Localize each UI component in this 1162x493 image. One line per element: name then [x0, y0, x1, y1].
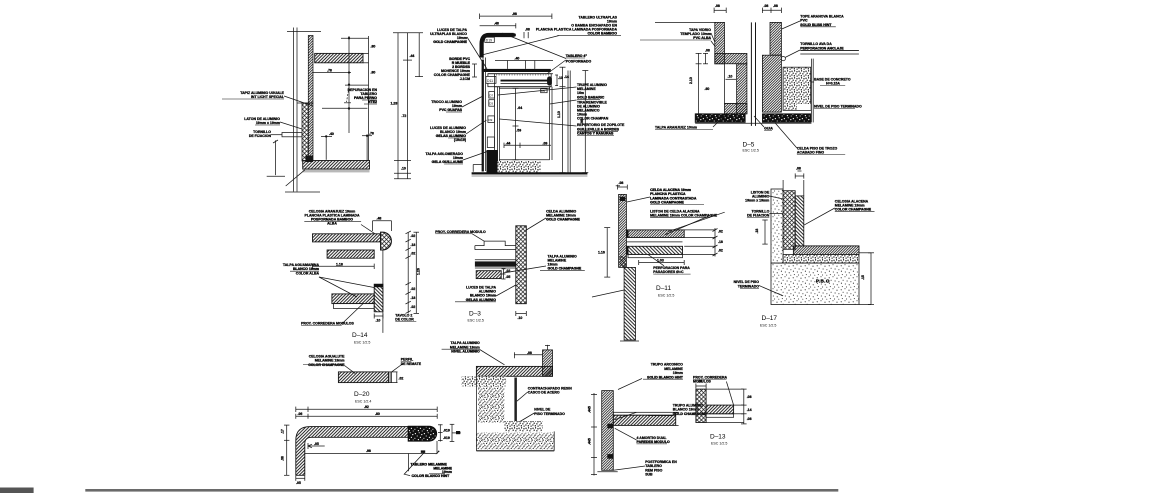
left text bracket dim [474, 64, 476, 77]
leader right R1b [550, 100, 577, 104]
svg-text:.59: .59 [516, 129, 521, 133]
svg-text:INT LICHT SPECIAL: INT LICHT SPECIAL [251, 95, 285, 99]
shared dim vertical [593, 393, 595, 476]
left dim vertical [286, 425, 288, 475]
small bracket right of bands [503, 269, 505, 279]
detail B left notes [425, 28, 470, 164]
bottom dim .10 [516, 313, 527, 315]
bar end cap [389, 372, 392, 383]
svg-text:.08: .08 [747, 395, 752, 399]
leader to anchor circle [785, 50, 800, 58]
right dim line tall 2 [407, 33, 409, 179]
detail B right notes [577, 83, 625, 136]
svg-text:.18: .18 [718, 240, 723, 244]
svg-text:SOLID BLISS HINT: SOLID BLISS HINT [800, 23, 832, 27]
left cap (hatched) [715, 53, 747, 63]
screw dim vertical [275, 140, 277, 175]
panel tag box D7 [489, 92, 495, 98]
shelf band edge lines [475, 259, 516, 261]
board rounded end [547, 76, 552, 85]
leader postformica [613, 466, 645, 470]
svg-text:.10: .10 [518, 316, 523, 320]
svg-text:D–13: D–13 [710, 434, 726, 441]
concrete base block (stippled) [783, 67, 811, 110]
svg-text:D3: D3 [489, 102, 493, 106]
leg dark bar [514, 378, 517, 422]
svg-text:19mm x 19mm: 19mm x 19mm [256, 121, 280, 125]
svg-text:ESC 1/2.5: ESC 1/2.5 [711, 442, 727, 446]
wall extension verticals [782, 180, 784, 191]
svg-text:.48: .48 [377, 217, 382, 221]
svg-text:.60: .60 [705, 87, 710, 91]
counter board (hatched) [476, 366, 552, 376]
left small dim [764, 220, 766, 244]
leader diagonal to posformado [503, 33, 567, 58]
left panel heavy edge [482, 60, 484, 172]
D-3 label [468, 311, 484, 323]
curved profile dim texts [280, 405, 450, 485]
under band [706, 414, 734, 418]
D-14 top note [304, 210, 361, 226]
D-13 dim texts [698, 380, 752, 422]
wall lower (hatched) [624, 267, 635, 340]
wall board lower outer layer [308, 103, 313, 161]
white notch in concrete [797, 104, 811, 110]
svg-text:1.28: 1.28 [391, 102, 398, 106]
D-13 note [693, 375, 728, 383]
svg-text:1.26: 1.26 [417, 268, 421, 275]
detail A dimension texts [327, 45, 414, 171]
floor heavy line [472, 172, 588, 174]
svg-text:.78: .78 [369, 132, 374, 136]
cabinet inner wall pair [497, 87, 499, 162]
lower slab (hatched) [332, 294, 374, 304]
svg-text:.445: .445 [588, 438, 592, 445]
screw dim bottom tick [267, 175, 285, 177]
slab extension lines [676, 411, 679, 413]
top-left extension line [655, 21, 715, 23]
leader from tope text [782, 21, 800, 29]
svg-text:COLOR CHAMPAGNE: COLOR CHAMPAGNE [835, 208, 872, 212]
svg-text:.09: .09 [543, 141, 548, 145]
guia leader [754, 116, 764, 127]
svg-text:COLOR BAMBOO: COLOR BAMBOO [587, 32, 617, 36]
dim line 1.18 [313, 265, 375, 267]
dim vertical line 2 [368, 36, 370, 161]
floor shadow line [472, 175, 588, 177]
D-14 label [352, 332, 370, 345]
svg-text:COLOR CHAMPAN: COLOR CHAMPAN [577, 116, 609, 120]
mortar pad (stippled) [505, 421, 543, 431]
D5 tag box [541, 89, 547, 93]
right dim line short [418, 33, 420, 77]
floor band right (dark stipple) [762, 114, 810, 123]
top note leader [480, 350, 505, 365]
D-5 notes [640, 15, 862, 155]
svg-text:.10: .10 [728, 75, 733, 79]
wall upper (hatched) [619, 194, 627, 267]
svg-text:PAREDES MODULO: PAREDES MODULO [637, 440, 670, 444]
svg-text:.17: .17 [280, 429, 284, 434]
shelf edge extension lines [363, 52, 369, 54]
svg-text:.18: .18 [411, 243, 416, 247]
wall board lower inner layer (cross hatched) [302, 103, 308, 161]
right column upper (hatched) [770, 22, 781, 55]
svg-text:TERMINADO: TERMINADO [738, 284, 759, 288]
leader diagonal from top-right text to nose [483, 36, 560, 55]
svg-text:REPERTORIO DE ZOPILOTE: REPERTORIO DE ZOPILOTE [577, 123, 625, 127]
svg-text:.02: .02 [399, 377, 404, 381]
svg-text:GOLD CHAMPAGNE: GOLD CHAMPAGNE [548, 267, 582, 271]
right boundary [553, 431, 555, 450]
svg-text:.02: .02 [718, 249, 723, 253]
svg-text:.14: .14 [564, 75, 569, 79]
svg-text:.40: .40 [515, 56, 520, 60]
right panel line pair [567, 71, 569, 173]
toe kick zoclo dark [487, 150, 498, 173]
svg-text:.08: .08 [527, 351, 532, 355]
fixation mark on surface [421, 450, 425, 453]
svg-text:.445: .445 [588, 406, 592, 413]
wall stud line 2 [296, 28, 298, 192]
svg-text:NTE2: NTE2 [368, 100, 377, 104]
D-3 right notes [540, 210, 585, 271]
D-20 notes [303, 355, 422, 381]
counter top surface heavy band [482, 69, 551, 72]
floor slab (hatched) [793, 246, 859, 255]
right dim vertical [870, 253, 872, 305]
white box dim [726, 78, 737, 80]
left small bracket [705, 53, 707, 63]
svg-text:NIVEL DE PISO TERMINADO: NIVEL DE PISO TERMINADO [814, 105, 862, 109]
bottom page rule [85, 489, 838, 492]
svg-text:1.10: 1.10 [557, 111, 561, 118]
bottom slab (stippled) [476, 433, 554, 450]
D-17 dim texts [755, 167, 865, 281]
shelf dim line .78 [313, 72, 351, 74]
svg-text:.019: .019 [443, 428, 450, 432]
svg-text:.98: .98 [512, 12, 517, 16]
svg-text:.02: .02 [506, 269, 511, 273]
top dim segment left [714, 9, 726, 11]
svg-text:PISO TERMINADO: PISO TERMINADO [534, 412, 565, 416]
small bracket right of board [555, 74, 558, 76]
wall joint dark 1 [607, 424, 613, 429]
leader left L3 [462, 96, 483, 107]
top cap line [287, 31, 321, 33]
slab thin top band [613, 412, 675, 415]
screw symbol [282, 133, 302, 137]
D-17 left notes [734, 191, 770, 289]
cabinet interior top lines [494, 86, 551, 88]
svg-text:GUIA: GUIA [764, 127, 773, 131]
bullnose drop line [382, 250, 384, 333]
top dim [514, 354, 542, 356]
svg-text:GOLD CHAMPAGNE: GOLD CHAMPAGNE [546, 218, 580, 222]
gap lines [626, 241, 682, 243]
svg-text:D19: D19 [486, 38, 492, 42]
svg-text:ALBA: ALBA [327, 222, 337, 226]
floor slab shadow [303, 170, 370, 173]
L vertical (cross hatched) [696, 389, 706, 422]
D-14 left note [283, 263, 320, 275]
wall column (hatched) [602, 391, 614, 471]
svg-text:.80: .80 [371, 71, 376, 75]
leader celda piso [775, 123, 797, 148]
svg-text:D11: D11 [487, 79, 493, 83]
masonry column (stippled) [771, 189, 783, 263]
center guide rails [750, 22, 752, 126]
top dim [696, 385, 706, 387]
tick at board joint [297, 102, 313, 104]
svg-text:.02: .02 [411, 234, 416, 238]
svg-text:16m: 16m [577, 91, 584, 95]
svg-text:.08: .08 [747, 417, 752, 421]
D-17 right note [835, 199, 875, 211]
leader from perfil note [392, 364, 403, 372]
svg-text:ESC 1/2.5: ESC 1/2.5 [468, 319, 484, 323]
svg-text:.80: .80 [375, 412, 380, 416]
svg-text:.06: .06 [298, 412, 303, 416]
leader tablero4 to board end [548, 60, 566, 74]
svg-text:.02: .02 [718, 230, 723, 234]
svg-text:.10: .10 [558, 76, 563, 80]
D-3 dim texts [506, 269, 523, 320]
leader from bottom-left note [496, 285, 516, 296]
top right dim .48 [373, 220, 392, 222]
shelf lower (hatched) [476, 271, 501, 279]
svg-text:.08: .08 [619, 181, 624, 185]
right upright (hatched) [543, 350, 553, 376]
svg-text:.08: .08 [715, 4, 720, 8]
left text leaders [711, 33, 715, 42]
interior dim ladder [515, 88, 517, 160]
curved profile band (hatched) [296, 427, 409, 476]
D-14 bottom note [301, 322, 354, 326]
leader liston [769, 196, 783, 199]
bottom-right wall notes [637, 363, 708, 477]
board inner line [501, 82, 550, 84]
svg-text:2.10: 2.10 [689, 77, 693, 84]
lower left band (hatched) [725, 103, 747, 113]
svg-text:.64: .64 [517, 106, 522, 110]
detail B dim texts [486, 12, 584, 146]
svg-text:(19x19): (19x19) [454, 138, 466, 142]
slab 1 (hatched) [313, 234, 381, 242]
right column lower (hatched) [762, 55, 781, 112]
svg-text:DE FIJACION: DE FIJACION [747, 214, 770, 218]
leader from right note 2 [503, 266, 546, 273]
svg-text:PVC ALBA: PVC ALBA [693, 36, 711, 40]
dim above surface [495, 60, 553, 62]
mortar band (cross stipple) [783, 255, 859, 264]
panel tag box D9 [488, 116, 495, 123]
bottom small dim [374, 315, 383, 317]
svg-text:MODULOS: MODULOS [693, 380, 712, 384]
svg-text:1.03: 1.03 [657, 258, 664, 262]
junction dark block [306, 156, 314, 163]
svg-text:J.1CM: J.1CM [460, 77, 470, 81]
wall stud lines [293, 28, 295, 192]
top dim segment right [762, 9, 781, 11]
left panel outer lines [482, 58, 484, 172]
leader right R1a [498, 87, 577, 95]
leaders from top notes [627, 197, 650, 202]
slab (hatched) [613, 415, 675, 425]
svg-text:TORNILLO AVA DA: TORNILLO AVA DA [800, 42, 832, 46]
leader right R2 [499, 119, 576, 126]
wall bottom tick [597, 471, 617, 473]
svg-text:.02: .02 [411, 287, 416, 291]
top dim line total [480, 15, 552, 17]
leader from top note [361, 225, 375, 234]
dim vertical line with dots [348, 36, 350, 133]
svg-text:PROY. CORREDERA MODULOS: PROY. CORREDERA MODULOS [301, 322, 354, 326]
L horizontal (hatched) [706, 405, 734, 414]
svg-text:SUB: SUB [645, 473, 653, 477]
svg-text:ESC 1/2.5: ESC 1/2.5 [760, 324, 776, 328]
svg-text:DE COLOR: DE COLOR [395, 318, 414, 322]
wall board 2 (hatched) [795, 196, 804, 246]
dim crossbar top [341, 37, 369, 39]
svg-text:POSFORMADO: POSFORMADO [566, 60, 592, 64]
D-13 label [710, 434, 727, 446]
anchor circle [781, 57, 785, 61]
svg-text:.08: .08 [705, 49, 710, 53]
detail B top-right note tablero ultraplas [536, 16, 621, 36]
surface arrow tick [436, 450, 440, 454]
svg-text:.05: .05 [506, 275, 511, 279]
leader left L5 [463, 151, 489, 160]
detail A note: depuracion block [344, 87, 377, 104]
bar (hatched) [338, 372, 388, 383]
under floor line [695, 122, 811, 124]
D-11 perforacion note [653, 266, 690, 274]
right dim vertical [743, 389, 745, 424]
svg-text:H=0.15A: H=0.15A [826, 82, 840, 86]
svg-text:D–17: D–17 [762, 315, 778, 322]
svg-text:PVC GUAFAS: PVC GUAFAS [439, 108, 462, 112]
svg-text:D–14: D–14 [352, 332, 368, 339]
leaders from left note [319, 277, 374, 288]
floor slab (hatched) [303, 161, 370, 170]
svg-text:19mm x 19mm: 19mm x 19mm [745, 199, 769, 203]
D-11 dim texts [598, 181, 723, 262]
leader from right note 1 [526, 218, 546, 230]
svg-text:ESC 1/2.5: ESC 1/2.5 [354, 341, 370, 345]
slab 2 (hatched) [327, 250, 374, 258]
svg-text:.80: .80 [371, 45, 376, 49]
right bracket dim [392, 371, 398, 373]
svg-text:ACABADO FINO: ACABADO FINO [797, 151, 824, 155]
svg-text:D–5: D–5 [743, 142, 755, 149]
right boundary lines [810, 59, 812, 123]
svg-text:TALPA ARANJUEZ 10mm: TALPA ARANJUEZ 10mm [655, 126, 697, 130]
svg-text:.15: .15 [861, 275, 865, 280]
D-3 bottom-left note [455, 286, 496, 302]
top dim ticks [618, 186, 628, 188]
svg-text:ESC 1/2.4: ESC 1/2.4 [355, 400, 371, 404]
bottom small dim [296, 477, 305, 479]
D19 tag box [485, 37, 495, 42]
shelf solid band [475, 261, 516, 266]
svg-text:.08: .08 [773, 4, 778, 8]
floor band left (dark stipple) [695, 114, 745, 123]
leader proy corredera [726, 382, 733, 406]
leader celosia [804, 208, 835, 225]
masonry column (stippled) [478, 386, 505, 422]
svg-text:COLOR ALBA: COLOR ALBA [296, 271, 320, 275]
leader nivel piso [520, 413, 534, 422]
upper slab (hatched) [626, 230, 684, 238]
inner dim arrow [308, 445, 325, 447]
left dim vertical [698, 53, 700, 113]
panel column (cross hatched) [516, 226, 527, 304]
svg-text:P.B.O: P.B.O [816, 279, 830, 284]
surface ext verticals [506, 61, 508, 69]
room dim left post [325, 136, 327, 159]
svg-text:NIVEL ALUMINIO: NIVEL ALUMINIO [451, 350, 480, 354]
second dim line [296, 415, 437, 417]
svg-text:.18: .18 [411, 296, 416, 300]
right dim vertical 2 [584, 71, 586, 173]
svg-text:.40: .40 [329, 132, 334, 136]
counter nose thick profile [482, 35, 514, 58]
right bracket dims of end piece [439, 424, 441, 441]
svg-text:ESC 1/2.5: ESC 1/2.5 [743, 149, 759, 153]
bottom dim [639, 262, 685, 264]
lower strip top cap dark [374, 284, 383, 287]
board mid dark strip [501, 80, 549, 82]
svg-text:PERFORACION ANCLAJE: PERFORACION ANCLAJE [800, 47, 844, 51]
svg-text:.02: .02 [411, 252, 416, 256]
D-14 dim texts [336, 217, 421, 323]
svg-text:.10: .10 [401, 167, 406, 171]
svg-text:.98: .98 [366, 449, 371, 453]
lower strip (hatched) [374, 284, 383, 312]
svg-text:PASADORES Ø=C: PASADORES Ø=C [653, 270, 684, 274]
leader amortiguadores [615, 428, 637, 440]
detail A note: liston [244, 117, 302, 129]
right dim ladder [407, 232, 409, 313]
lower slab (hatched) [626, 246, 682, 254]
right extension lines [859, 252, 871, 254]
svg-text:PROY. CORREDERA MODULO: PROY. CORREDERA MODULO [435, 230, 486, 234]
bottom-center notes [442, 341, 573, 416]
end piece bullnose (dark) [408, 426, 436, 441]
svg-text:.08: .08 [525, 28, 530, 32]
svg-text:.019: .019 [443, 436, 450, 440]
bullnose drop line [436, 441, 438, 454]
base left step [472, 165, 474, 172]
room dim right post [366, 136, 368, 161]
svg-text:GELAS ALUMINIO: GELAS ALUMINIO [466, 298, 496, 302]
extension lines [706, 388, 744, 390]
board dotted top row [496, 74, 549, 76]
long dim line [296, 408, 437, 410]
svg-text:.44: .44 [410, 54, 415, 58]
svg-text:.38: .38 [280, 456, 284, 461]
svg-text:D9: D9 [489, 118, 493, 122]
right dim ladder [714, 228, 716, 257]
D11 tag box [486, 76, 496, 83]
svg-text:D–20: D–20 [354, 391, 370, 398]
interior dim horizontal [504, 144, 551, 146]
wall joint dark fill [620, 256, 627, 267]
D-17 label [760, 315, 777, 328]
top dim line partial [480, 25, 516, 27]
leader perforacion [648, 255, 664, 266]
